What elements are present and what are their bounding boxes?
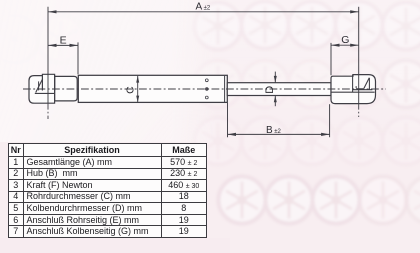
svg-text:E: E <box>60 34 67 46</box>
svg-text:G: G <box>341 34 349 46</box>
svg-text:A: A <box>196 1 203 12</box>
svg-text:±2: ±2 <box>274 129 281 135</box>
svg-text:C: C <box>125 86 137 94</box>
svg-text:±2: ±2 <box>204 6 211 12</box>
svg-text:D: D <box>264 86 276 94</box>
svg-text:B: B <box>266 125 273 136</box>
